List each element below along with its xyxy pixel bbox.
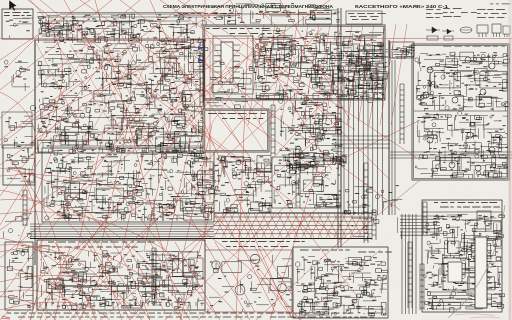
component cluster: power amplifier channel 2 parts xyxy=(415,111,508,178)
block: power supply unit A12 xyxy=(293,247,388,318)
red wire overlay 70 xyxy=(0,160,40,225)
legend small package xyxy=(444,36,453,40)
wire: main vertical divider xyxy=(338,8,341,247)
connector connector XS1 xyxy=(200,42,204,108)
component cluster: top center wires xyxy=(206,3,340,25)
red wire overlay 22 xyxy=(100,120,340,320)
red wire overlay 32 xyxy=(30,0,63,140)
connector connector XS4 xyxy=(152,248,156,304)
red wire overlay 78 xyxy=(0,200,150,320)
red wire overlay 9 xyxy=(0,40,120,196)
label text row: legend text Диоды xyxy=(443,7,462,10)
block: A3 inner IC area xyxy=(213,36,253,94)
red wire overlay 71 xyxy=(30,200,120,320)
blue arrow marker 2 xyxy=(198,58,203,62)
IC DA2: noise reduction chip xyxy=(221,42,233,82)
block: control block A9 xyxy=(5,242,33,310)
connector connector XP7 xyxy=(420,264,424,310)
wire: A7 thick bus xyxy=(55,285,203,287)
label text row: A11 caption row 2 xyxy=(440,207,500,208)
label text row: control unit caption xyxy=(142,151,227,152)
label text row: legend text КД520А xyxy=(426,12,443,15)
red wire overlay 36 xyxy=(0,80,80,140)
red wire overlay 62 xyxy=(0,296,56,320)
red wire overlay 29 xyxy=(0,275,142,320)
block: playback amplifier unit A7 xyxy=(37,240,205,310)
block: record-playback amplifier A2 xyxy=(35,40,204,153)
IC DA2 indicator sub-block xyxy=(443,258,469,290)
red wire overlay 44 xyxy=(0,14,60,74)
label text row: legend text КД20Л Диоды xyxy=(426,8,441,11)
label text row: legend text КТ315 КТ361 xyxy=(477,8,505,11)
label text row: search device caption text xyxy=(178,12,241,15)
red steep lines over A3 xyxy=(248,24,407,125)
red wire overlay 76 xyxy=(0,290,92,320)
red wire overlay 66 xyxy=(240,242,275,312)
red wire overlay 26 xyxy=(160,0,355,130)
red wire overlay 59 xyxy=(0,190,122,320)
label text row: A7 caption row 2: Блок Уз-СШ 1.300.00 xyxy=(52,247,138,248)
red wire overlay 55 xyxy=(262,247,292,295)
wire bus: IC DA1 left pins xyxy=(470,240,475,305)
wire: bus rail bottom xyxy=(30,238,372,240)
red wire overlay 11 xyxy=(40,0,340,240)
red wire overlay 14 xyxy=(95,0,182,320)
component cluster: input socket parts xyxy=(6,147,35,185)
component cluster: A7 amplifier parts xyxy=(41,251,204,310)
block: dynamic noise reduction unit A3 xyxy=(203,25,385,100)
block: record level indicator unit A11 xyxy=(422,200,502,312)
wire bus: bottom pin lines in A11 xyxy=(428,292,472,306)
red hatch upper xyxy=(29,33,272,156)
label text row: legend text КТ502 КТ503 xyxy=(477,12,507,15)
red wire overlay 25 xyxy=(80,0,330,180)
component cluster: wires to indicator xyxy=(344,185,403,239)
indicator lamps HL1-HL3 xyxy=(30,105,36,111)
red wire overlay 79 xyxy=(40,248,70,320)
long wires in amplifier mid xyxy=(37,132,204,146)
wire bus: DA2 left pins xyxy=(214,45,221,77)
red curve left control area xyxy=(16,125,60,250)
wire bus: bus to right section xyxy=(390,152,512,158)
red wire overlay 41 xyxy=(0,302,110,320)
wire bus: bus lines through hatch band xyxy=(214,217,372,234)
wire bus: vertical wire pair xyxy=(392,60,395,215)
block: level preset caption box xyxy=(346,11,382,24)
red wire overlay 37 xyxy=(160,40,360,300)
red wire overlay 20 xyxy=(0,64,240,258)
legend diode КД522 symbol xyxy=(442,29,454,34)
label text row: mechanism caption: Блок 5.089.00 xyxy=(222,241,305,242)
label text row: A12 caption: Блок питания xyxy=(300,250,350,251)
label text row: legend text КД522 xyxy=(443,11,454,14)
red wire overlay 47 xyxy=(340,120,420,160)
label text row: block A0 caption xyxy=(4,12,29,13)
component cluster: A3 bottom left parts xyxy=(206,96,248,108)
component cluster: control unit parts xyxy=(44,151,215,221)
red wire overlay 45 xyxy=(36,40,200,120)
red wire overlay 54 xyxy=(255,247,292,318)
red wire overlay 69 xyxy=(180,170,300,320)
block: record level preset unit A8 xyxy=(390,42,414,58)
red wire overlay 19 xyxy=(0,0,112,90)
label text row: legend text КД4АС xyxy=(461,11,477,14)
legend transistor case КТ-27 xyxy=(477,25,488,33)
label text row: A3 caption line 1 xyxy=(206,28,270,29)
red dotted underline noise caption xyxy=(258,14,330,16)
connector connector XS7 band end xyxy=(372,210,376,240)
wire: bus rail top xyxy=(214,212,372,214)
red wire overlay 28 xyxy=(0,246,182,320)
red wire overlay 58 xyxy=(0,168,150,320)
red wire overlay 72 xyxy=(180,160,225,320)
block: tape transport unit A0 xyxy=(2,9,33,39)
wire bus: wires left of indicator xyxy=(402,214,416,314)
legend capacitor symbol xyxy=(460,27,472,33)
component cluster: noise reduction A3 dense parts xyxy=(253,28,384,102)
red hatch band B xyxy=(214,214,370,238)
wire: main section left border xyxy=(34,40,36,265)
wire: strong vertical rail xyxy=(388,40,390,215)
legend diode VD symbol xyxy=(426,27,440,33)
red frame line right edge xyxy=(509,38,511,320)
red wire overlay 39 xyxy=(280,0,350,120)
wire bus: control bus lines xyxy=(30,224,214,237)
component cluster: left margin symbols: erase head, bias xyxy=(4,60,30,91)
IC DA1: LED driver tall package xyxy=(475,237,487,308)
red wire overlay 53 xyxy=(215,242,255,312)
red wire overlay 42 xyxy=(209,40,211,200)
connector connector XP6 xyxy=(423,202,427,235)
component cluster: center parts right of control unit xyxy=(214,156,273,213)
red wire overlay 30 xyxy=(0,212,242,320)
wire bus: wires A4 to right section xyxy=(332,136,390,148)
motor M2 circle xyxy=(278,284,287,293)
transistors VT in power amp xyxy=(423,57,495,171)
head circle 1 xyxy=(212,261,220,269)
red wire overlay 21 xyxy=(45,90,300,320)
label text row: noise suppressor caption text xyxy=(259,11,329,14)
red dotted underline search device xyxy=(176,15,240,17)
component cluster: left connector parts xyxy=(4,116,35,148)
block: electronic control unit A5 xyxy=(42,148,214,222)
red wire overlay 77 xyxy=(10,160,61,320)
component cluster: control block parts xyxy=(7,245,33,307)
red wire overlay 6 xyxy=(70,28,322,320)
A7 designator box xyxy=(40,246,49,252)
red wire overlay 57 xyxy=(256,247,283,290)
red wire overlay 65 xyxy=(150,242,190,312)
red wire overlay 49 xyxy=(55,242,95,312)
red steep fan over control area xyxy=(77,125,212,250)
red wire overlay 7 xyxy=(130,58,362,320)
red wire overlay 74 xyxy=(0,199,190,320)
connector connector XS3 xyxy=(408,242,412,308)
label text row: A7 caption: Блок УЛПЧ 1.220.00 xyxy=(48,242,155,243)
connector connector pin column XP5 xyxy=(400,84,404,144)
wire bus: DA2 right pins xyxy=(233,45,240,77)
connector connector XP3 left margin xyxy=(23,190,27,226)
red wire overlay 43 xyxy=(236,36,248,320)
red wire overlay 17 xyxy=(178,0,420,160)
wire: top rail xyxy=(60,13,338,15)
red wire overlay 46 xyxy=(60,60,220,160)
red wire overlay 73 xyxy=(270,160,320,320)
label text row: footnote line 2b xyxy=(270,317,374,318)
red wire overlay 24 xyxy=(28,0,250,170)
component cluster: power supply parts xyxy=(296,256,388,316)
label text row: level preset text xyxy=(348,12,386,15)
label text row: legend text КТ815 xyxy=(477,16,504,19)
cursor arrow artifact xyxy=(9,0,17,11)
red hatch band A xyxy=(214,214,370,238)
connector connector XS2 xyxy=(296,160,300,208)
red wire overlay 38 xyxy=(250,40,390,180)
label text row: level preset text 3 xyxy=(352,18,377,21)
A7 bottom tick row xyxy=(40,302,202,306)
label text row: A11 caption 5.746.003 xyxy=(434,202,497,203)
component cluster: left margin parts 2 xyxy=(4,214,33,238)
red wire overlay 33 xyxy=(198,196,330,320)
red wire overlay 60 xyxy=(0,238,96,320)
component cluster: wires and parts above amplifier xyxy=(38,14,206,43)
red wire overlay 23 xyxy=(165,150,345,320)
small box above DA1 xyxy=(477,211,491,229)
red wire overlay 75 xyxy=(0,245,130,320)
red wire overlay 35 xyxy=(300,250,380,320)
red wire overlay 50 xyxy=(90,242,130,312)
block: dynamic noise reduction unit A4 xyxy=(203,109,269,152)
component cluster: preamp sub-block parts xyxy=(274,159,342,208)
label text row: level preset text 2 xyxy=(350,15,379,18)
block: input sockets unit xyxy=(3,145,35,185)
red wire overlay 15 xyxy=(150,0,282,300)
label text row: legend text ДВА xyxy=(426,16,440,19)
red wire overlay 13 xyxy=(64,0,250,320)
scan edge smudge xyxy=(508,0,512,320)
motor M1 circle xyxy=(235,285,245,295)
component cluster: power amplifier channel 1 parts xyxy=(415,52,510,111)
component cluster: table rows below A4 xyxy=(284,153,347,170)
legend resistor symbol xyxy=(427,36,438,40)
red wire overlay 34 xyxy=(256,230,352,320)
component cluster: indicator parts xyxy=(424,214,505,312)
block: power amplifier unit A10 5.050.079 xyxy=(412,44,509,180)
label text row: block A0 caption2 xyxy=(4,15,31,16)
label text row: A4 caption xyxy=(208,113,265,114)
red wire overlay 8 xyxy=(0,0,90,60)
red frame line horizontal xyxy=(0,38,512,40)
label text row: footnote line 1a xyxy=(7,313,210,314)
A10 channel divider line xyxy=(414,110,507,112)
red wire overlay 67 xyxy=(60,190,150,320)
grey pencil arc bottom right xyxy=(448,205,505,318)
red wire overlay 80 xyxy=(80,255,110,320)
legend transistor case KT361 xyxy=(503,26,510,34)
block: preamp sub-block A6 xyxy=(272,157,341,208)
red wire overlay 31 xyxy=(0,92,36,200)
red wire overlay 64 xyxy=(35,242,70,312)
red wire overlay 12 xyxy=(120,0,400,210)
block: tape mechanism unit with motor M1 xyxy=(205,250,292,312)
label text row: footnote line 1b xyxy=(215,313,353,314)
red scribble bottom-left xyxy=(1,316,10,319)
red wire overlay 51 xyxy=(125,242,165,312)
label text row: A4 caption 2 xyxy=(222,118,263,119)
red wire overlay 27 xyxy=(250,0,345,95)
label text row: legend text xyxy=(443,15,461,18)
block: left connector group xyxy=(2,112,32,148)
blue arrow marker 1 xyxy=(198,46,203,50)
connector connector XS5 xyxy=(364,163,368,243)
label text row: legend text top right xyxy=(490,3,511,6)
head circle 2 xyxy=(250,254,259,263)
component cluster: A3 sparse left parts xyxy=(210,62,254,94)
label text row: A3 caption 2.067.050-01 xyxy=(230,33,280,34)
connector connector XS6 right of A4 xyxy=(271,105,275,155)
label text row: A10 caption 5.050.079 xyxy=(443,46,505,47)
wire bus: IC DA1 right pins xyxy=(487,240,492,305)
red wire overlay 2 xyxy=(0,0,230,165)
red wire overlay 61 xyxy=(0,266,80,320)
red wire overlay 52 xyxy=(175,242,215,312)
red wire overlay 56 xyxy=(256,270,292,318)
label text row: footnote line 2a xyxy=(18,317,261,318)
wire bus: vertical wire fan to bottom xyxy=(344,78,382,215)
red wire overlay 1 xyxy=(0,0,140,118)
red wire overlay 5 xyxy=(20,40,262,320)
component cluster: parts above wire fan left of power amp xyxy=(345,48,388,81)
red wire overlay 3 xyxy=(0,0,330,230)
red wire overlay 10 xyxy=(0,0,190,145)
pink smudges bottom-right xyxy=(455,314,500,318)
A11 header separator xyxy=(422,211,502,213)
component cluster: A8 dense parts xyxy=(391,43,415,59)
component cluster: parts right of A4 xyxy=(279,99,344,163)
red wire overlay 68 xyxy=(110,180,220,320)
label text row: A12 caption: Стабилизатор 5.089.022 xyxy=(358,252,392,253)
legend transistor case TO-92 xyxy=(492,24,501,33)
red wire overlay 4 xyxy=(0,56,180,298)
red wire overlay 18 xyxy=(204,0,206,240)
red wire overlay 63 xyxy=(12,160,42,320)
component cluster: tape transport parts: heads and motor symbols xyxy=(6,18,33,38)
red wire overlay 48 xyxy=(336,180,420,250)
component cluster: mechanism sparse parts xyxy=(208,255,292,312)
long wires top of amplifier xyxy=(37,13,204,22)
component cluster: record-playback amplifier parts xyxy=(37,42,208,155)
red wire overlay 16 xyxy=(230,0,332,170)
wire bus: wires entering A11 xyxy=(400,216,440,235)
red wire overlay 40 xyxy=(0,175,300,320)
label text row: mechanism caption row 2 xyxy=(226,246,288,247)
